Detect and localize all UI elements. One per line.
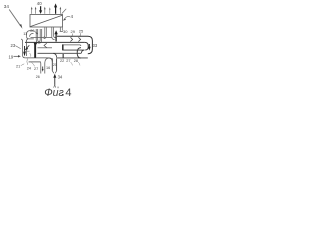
main channel bottom wall (long, dark) <box>25 41 85 43</box>
corner arc into drop channel left <box>49 58 52 62</box>
lower-left channel bottom wall <box>29 61 41 63</box>
caption period <box>62 94 63 96</box>
down arrow in left feed pipe <box>24 46 26 53</box>
dark partition bar <box>34 44 36 58</box>
svg-text:23: 23 <box>11 43 16 48</box>
separator box 1 <box>30 15 63 28</box>
flow chevron 2 <box>78 37 80 41</box>
gas up arrow a3 <box>44 9 46 14</box>
vapor arrow thick up <box>55 7 57 14</box>
speck above caption <box>57 87 60 89</box>
svg-text:34: 34 <box>4 4 10 9</box>
svg-text:21: 21 <box>16 64 20 68</box>
downcomer outer wall with corner <box>88 36 93 54</box>
elbow down outer <box>45 58 50 74</box>
drop channel right wall <box>56 58 58 70</box>
curved leader to label 27b <box>32 62 35 66</box>
channel A top wall <box>63 45 81 46</box>
lower-left channel top wall <box>25 57 49 59</box>
gas up arrow a1 <box>31 9 33 14</box>
speck at arrow base <box>54 85 56 88</box>
svg-text:21: 21 <box>53 63 57 67</box>
svg-text:24: 24 <box>27 67 31 71</box>
faint squiggle near bar <box>30 53 31 56</box>
svg-text:4: 4 <box>65 87 71 99</box>
left feed pipe walls with bell mouth <box>21 39 25 58</box>
svg-text:28: 28 <box>74 59 78 63</box>
svg-text:25: 25 <box>79 29 84 34</box>
svg-text:Фиг: Фиг <box>44 87 64 99</box>
svg-text:4: 4 <box>71 14 74 19</box>
elbow pipe from box left (S-pipe) <box>27 31 34 37</box>
U-turn end cap inner <box>81 50 84 53</box>
riser pipe to box (bends right) <box>52 27 56 39</box>
downcomer inner wall with corner <box>85 42 88 50</box>
svg-text:27: 27 <box>34 67 38 71</box>
svg-text:29: 29 <box>71 29 76 34</box>
U-turn end cap outer <box>77 48 81 58</box>
svg-text:26: 26 <box>36 75 40 79</box>
svg-text:40: 40 <box>37 1 42 6</box>
main channel top wall (right part, dark) <box>57 35 88 37</box>
channel B top wall (long) <box>38 52 82 54</box>
gas up arrow a4 <box>49 9 51 14</box>
leader to box corner (top-right diagonal) <box>62 9 66 14</box>
diagonal flow arrow (down-left) <box>26 45 29 48</box>
circulation up arrow (thick black) <box>55 34 57 42</box>
feed arrow 40 (thick down) <box>40 6 42 11</box>
svg-text:33: 33 <box>93 43 98 48</box>
funnel at drop channel bottom <box>52 71 56 74</box>
svg-text:30: 30 <box>63 29 68 34</box>
gas up arrow a5 <box>59 9 61 14</box>
channel B bottom wall right segment <box>57 57 88 59</box>
U-tube seal (legs + bottom) <box>27 29 42 43</box>
svg-text:16: 16 <box>46 66 50 70</box>
gate tick in channel B <box>63 54 64 58</box>
drop channel left wall <box>51 58 53 70</box>
left channel top wall <box>31 36 53 38</box>
short shelf line <box>25 50 30 52</box>
leader from 34 with arrowhead <box>9 10 21 27</box>
channel A end wall (dark bar) <box>62 44 64 50</box>
left chevron in channel <box>44 43 47 47</box>
down arrow inside elbow <box>42 67 44 70</box>
channel A bottom wall <box>63 49 84 51</box>
svg-text:19: 19 <box>9 55 14 60</box>
svg-text:22: 22 <box>60 59 64 63</box>
box drain pipe 1 (bends left into channel) <box>43 27 47 38</box>
elbow down inner <box>40 62 42 74</box>
inclined plate (diagonal) <box>30 15 62 26</box>
svg-text:34: 34 <box>58 75 63 80</box>
box right stub <box>60 27 63 31</box>
bottom inlet up arrow <box>54 78 56 86</box>
left mid channel wall 1 <box>38 47 53 49</box>
corner arc channel B top into drop right wall <box>53 53 56 57</box>
svg-text:27: 27 <box>66 59 70 63</box>
curved leader to label 24 <box>26 59 29 65</box>
flow chevron 1 <box>70 37 72 41</box>
down arrow in downcomer <box>88 44 90 48</box>
gas up arrow a2 <box>35 9 37 14</box>
